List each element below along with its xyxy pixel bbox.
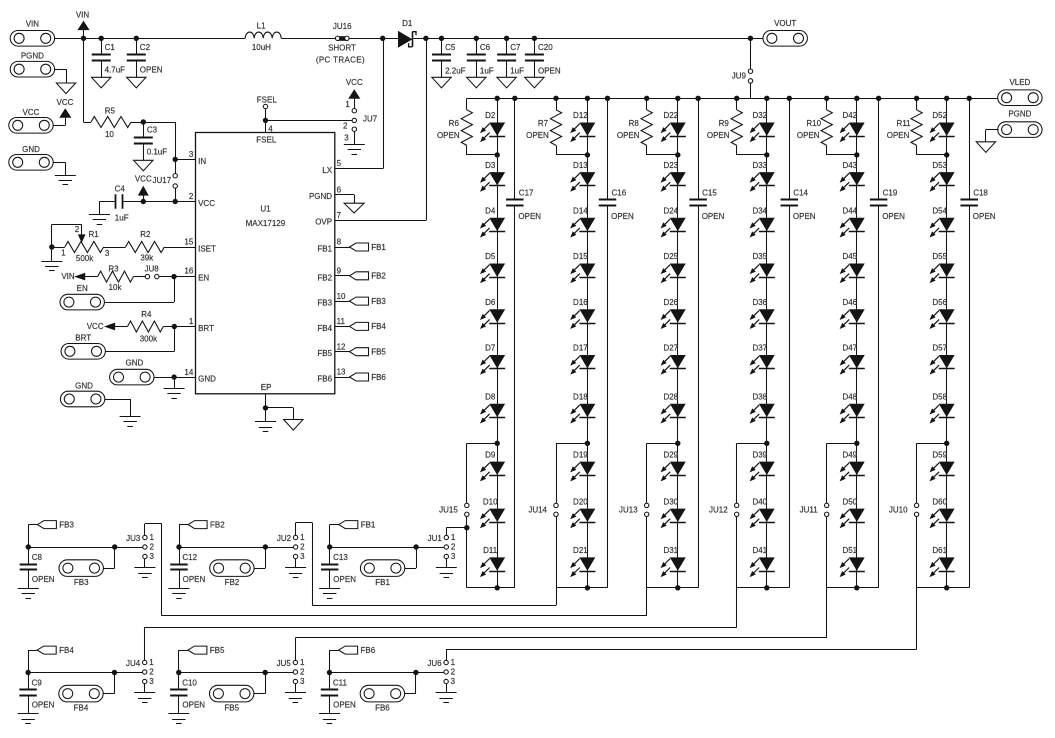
- junction: [263, 405, 268, 410]
- LED D4: [481, 207, 505, 237]
- op-amp U1: [196, 133, 335, 394]
- svg-text:D7: D7: [485, 344, 496, 353]
- LED D13: [571, 161, 595, 191]
- svg-text:OPEN: OPEN: [611, 212, 634, 221]
- junction: [675, 152, 680, 157]
- junction: [504, 36, 509, 41]
- svg-text:FB1: FB1: [361, 520, 376, 529]
- net label VIN: [61, 272, 84, 281]
- svg-text:D33: D33: [752, 161, 767, 170]
- ground: [497, 77, 516, 88]
- jumper JU5: [277, 658, 305, 686]
- svg-text:VCC: VCC: [57, 98, 74, 107]
- svg-text:D41: D41: [752, 546, 767, 555]
- ground: [134, 693, 155, 703]
- capacitor C20: [525, 38, 561, 77]
- connector GND: [9, 145, 53, 170]
- wire BRT pad: [105, 327, 174, 352]
- ground: [134, 160, 153, 171]
- svg-text:JU15: JU15: [439, 505, 458, 514]
- LED D53: [931, 161, 955, 191]
- svg-text:GND: GND: [75, 381, 93, 390]
- svg-text:D52: D52: [932, 111, 947, 120]
- svg-text:D57: D57: [932, 344, 947, 353]
- svg-text:2.2uF: 2.2uF: [445, 66, 466, 75]
- LED D20: [571, 497, 595, 527]
- svg-text:C10: C10: [182, 679, 197, 688]
- svg-text:PGND: PGND: [21, 52, 44, 61]
- LED D44: [841, 207, 865, 237]
- svg-text:D17: D17: [573, 344, 588, 353]
- pin 13 FB6: [317, 368, 346, 384]
- svg-text:VOUT: VOUT: [774, 19, 796, 28]
- svg-text:1uF: 1uF: [115, 213, 129, 222]
- LED D6: [481, 298, 505, 328]
- svg-text:OPEN: OPEN: [518, 212, 541, 221]
- resistor R11: [887, 98, 947, 155]
- svg-text:D20: D20: [573, 497, 588, 506]
- connector PGND right: [998, 109, 1042, 137]
- svg-text:5: 5: [337, 159, 342, 168]
- svg-text:D21: D21: [573, 546, 588, 555]
- wire JU2 route: [296, 523, 557, 606]
- svg-text:R10: R10: [806, 119, 821, 128]
- jumper JU12: [709, 503, 739, 516]
- svg-text:R1: R1: [88, 230, 99, 239]
- svg-text:3: 3: [189, 150, 194, 159]
- wire node: [179, 547, 293, 549]
- svg-text:GND: GND: [126, 359, 144, 368]
- resistor R4: [115, 310, 196, 343]
- svg-text:FB2: FB2: [371, 272, 386, 281]
- diode D1: [399, 19, 417, 47]
- net label FB1: [330, 520, 376, 547]
- LED D26: [662, 298, 686, 328]
- pin 9 FB2: [317, 267, 341, 283]
- svg-text:C6: C6: [480, 43, 491, 52]
- ground: [319, 589, 340, 599]
- junction: [605, 96, 610, 101]
- capacitor C9: [19, 673, 54, 714]
- LED D17: [571, 344, 595, 374]
- svg-text:FB4: FB4: [317, 324, 332, 333]
- wire PGND: [986, 130, 999, 142]
- jumper JU11: [800, 503, 829, 516]
- connector VOUT: [763, 19, 807, 46]
- junction: [553, 96, 558, 101]
- wire GND pad: [53, 162, 65, 175]
- svg-text:3: 3: [451, 552, 456, 561]
- svg-text:D10: D10: [483, 497, 498, 506]
- svg-text:2: 2: [75, 225, 80, 234]
- wire VCC pin: [122, 201, 195, 203]
- junction: [675, 585, 680, 590]
- svg-text:2: 2: [189, 192, 194, 201]
- junction: [81, 36, 86, 41]
- svg-text:D44: D44: [842, 207, 857, 216]
- connector GND3: [60, 381, 104, 407]
- svg-text:10uH: 10uH: [252, 43, 271, 52]
- svg-text:1: 1: [189, 317, 194, 326]
- LED D39: [751, 450, 775, 480]
- svg-text:OPEN: OPEN: [526, 131, 549, 140]
- svg-text:D59: D59: [932, 450, 947, 459]
- wire oval: [405, 673, 416, 694]
- pin 10 FB3: [317, 292, 346, 308]
- svg-text:JU4: JU4: [126, 659, 141, 668]
- pin 15 ISET: [184, 238, 216, 254]
- LED D51: [841, 546, 865, 576]
- wire oval: [254, 547, 265, 569]
- wire LED string: [497, 98, 499, 588]
- svg-text:3: 3: [300, 552, 305, 561]
- svg-text:FB2: FB2: [317, 273, 332, 282]
- svg-text:C11: C11: [333, 679, 348, 688]
- svg-text:7: 7: [337, 211, 342, 220]
- junction: [787, 96, 792, 101]
- svg-text:BRT: BRT: [75, 333, 91, 342]
- ground: [18, 714, 39, 724]
- wire bypass: [917, 443, 947, 588]
- svg-text:FB6: FB6: [361, 646, 376, 655]
- junction: [327, 544, 332, 549]
- net label FB6: [335, 373, 387, 382]
- svg-text:C9: C9: [32, 679, 43, 688]
- wire jumper gnd: [295, 684, 297, 693]
- junction: [413, 670, 418, 675]
- svg-text:D40: D40: [752, 497, 767, 506]
- svg-text:FB3: FB3: [317, 299, 332, 308]
- net label VCC: [87, 322, 115, 331]
- wire VIN to R5: [84, 38, 92, 122]
- wire JU3 route: [145, 524, 647, 616]
- svg-text:FB6: FB6: [317, 375, 332, 384]
- svg-text:1uF: 1uF: [480, 66, 494, 75]
- junction: [173, 199, 178, 204]
- svg-text:500k: 500k: [76, 254, 94, 263]
- junction: [141, 119, 146, 124]
- jumper JU6: [427, 658, 455, 686]
- svg-text:PGND: PGND: [1008, 109, 1031, 118]
- svg-text:SHORT: SHORT: [328, 44, 356, 53]
- LED D7: [481, 344, 505, 374]
- capacitor C3: [134, 122, 167, 160]
- junction: [914, 96, 919, 101]
- ground: [18, 589, 39, 599]
- ground: [976, 142, 995, 153]
- net label FB4: [335, 322, 387, 331]
- resistor R5: [91, 106, 143, 138]
- connector FB1: [360, 560, 404, 587]
- svg-text:2: 2: [149, 543, 154, 552]
- junction: [495, 441, 500, 446]
- svg-text:OPEN: OPEN: [437, 131, 460, 140]
- LED D45: [841, 252, 865, 282]
- svg-text:R8: R8: [629, 119, 640, 128]
- svg-text:D22: D22: [663, 111, 678, 120]
- potentiometer R1: [61, 225, 110, 263]
- svg-text:C2: C2: [140, 43, 151, 52]
- LED D47: [841, 344, 865, 374]
- svg-text:10: 10: [337, 292, 346, 301]
- LED D30: [662, 497, 686, 527]
- LED D36: [751, 298, 775, 328]
- svg-text:C8: C8: [32, 553, 43, 562]
- svg-text:JU3: JU3: [126, 534, 141, 543]
- svg-text:FB2: FB2: [210, 520, 225, 529]
- svg-text:D3: D3: [485, 161, 496, 170]
- junction: [263, 118, 268, 123]
- LED D38: [751, 393, 775, 423]
- wire jumper gnd: [144, 559, 146, 568]
- LED D40: [751, 497, 775, 527]
- svg-text:D4: D4: [485, 207, 496, 216]
- pin 16 EN: [184, 267, 209, 283]
- junction: [141, 199, 146, 204]
- connector PGND left: [10, 52, 54, 78]
- svg-text:R5: R5: [105, 106, 116, 115]
- svg-text:D30: D30: [663, 497, 678, 506]
- junction: [585, 152, 590, 157]
- ground: [169, 589, 190, 599]
- svg-text:C20: C20: [538, 43, 553, 52]
- svg-text:D46: D46: [842, 298, 857, 307]
- ground: [285, 568, 306, 578]
- junction: [675, 96, 680, 101]
- junction: [495, 585, 500, 590]
- resistor R3: [85, 265, 146, 293]
- ground: [41, 262, 62, 271]
- svg-text:FB1: FB1: [317, 245, 332, 254]
- svg-text:C7: C7: [510, 43, 521, 52]
- svg-text:OPEN: OPEN: [538, 66, 561, 75]
- junction: [854, 96, 859, 101]
- net label FB2: [179, 520, 225, 547]
- svg-text:D18: D18: [573, 393, 588, 402]
- svg-text:1: 1: [61, 248, 66, 257]
- jumper JU4: [126, 658, 154, 686]
- svg-text:FB3: FB3: [59, 520, 74, 529]
- power VCC: [57, 98, 74, 117]
- ground: [436, 693, 457, 703]
- capacitor C1: [92, 38, 125, 77]
- svg-text:9: 9: [337, 267, 342, 276]
- svg-text:JU12: JU12: [709, 505, 728, 514]
- svg-text:OPEN: OPEN: [887, 131, 910, 140]
- svg-text:FB1: FB1: [371, 243, 386, 252]
- svg-text:ISET: ISET: [198, 245, 216, 254]
- svg-text:C4: C4: [115, 185, 126, 194]
- junction: [112, 670, 117, 675]
- svg-text:D36: D36: [752, 298, 767, 307]
- LED D61: [931, 546, 955, 576]
- ground: [255, 422, 276, 432]
- svg-text:14: 14: [184, 368, 193, 377]
- wire R5 to IN: [143, 122, 175, 159]
- jumper JU7: [343, 97, 378, 143]
- svg-text:2: 2: [300, 543, 305, 552]
- wire oval: [103, 673, 114, 694]
- LED D35: [751, 252, 775, 282]
- power VCC: [346, 78, 363, 98]
- junction: [695, 96, 700, 101]
- svg-text:C18: C18: [973, 188, 988, 197]
- wire jumper gnd: [144, 684, 146, 693]
- svg-text:EP: EP: [261, 383, 272, 392]
- svg-text:D55: D55: [932, 252, 947, 261]
- jumper JU2: [277, 533, 305, 561]
- svg-text:D9: D9: [485, 450, 496, 459]
- power VIN: [76, 11, 90, 39]
- capacitor C13: [321, 547, 356, 588]
- svg-text:D12: D12: [573, 111, 588, 120]
- capacitor C11: [321, 673, 356, 714]
- LED D59: [931, 450, 955, 480]
- svg-text:JU5: JU5: [277, 659, 292, 668]
- connector FB2: [210, 560, 254, 587]
- junction: [585, 585, 590, 590]
- junction: [944, 152, 949, 157]
- LED D23: [662, 161, 686, 191]
- junction: [532, 36, 537, 41]
- svg-text:D51: D51: [842, 546, 857, 555]
- LED D5: [481, 252, 505, 282]
- connector FB6: [360, 685, 404, 712]
- svg-text:C14: C14: [793, 188, 808, 197]
- svg-text:VCC: VCC: [87, 322, 104, 331]
- svg-text:C16: C16: [612, 188, 627, 197]
- LED D43: [841, 161, 865, 191]
- junction: [854, 152, 859, 157]
- net label FB5: [179, 646, 226, 673]
- junction: [263, 670, 268, 675]
- svg-text:1: 1: [451, 533, 456, 542]
- svg-text:FSEL: FSEL: [256, 135, 277, 144]
- pin 1 BRT: [189, 317, 214, 333]
- svg-text:OPEN: OPEN: [333, 701, 356, 710]
- connector VIN: [10, 19, 54, 46]
- svg-text:JU10: JU10: [889, 505, 908, 514]
- LED D56: [931, 298, 955, 328]
- junction: [495, 96, 500, 101]
- svg-text:D48: D48: [842, 393, 857, 402]
- LED D57: [931, 344, 955, 374]
- pin 2 VCC: [189, 192, 215, 208]
- svg-text:GND: GND: [198, 375, 216, 384]
- svg-text:2: 2: [149, 668, 154, 677]
- wire PGND pin: [335, 195, 355, 204]
- svg-text:D6: D6: [485, 298, 496, 307]
- svg-text:2: 2: [343, 121, 348, 130]
- svg-text:D50: D50: [842, 497, 857, 506]
- junction: [944, 585, 949, 590]
- junction: [967, 96, 972, 101]
- net label FB6: [330, 646, 376, 673]
- svg-text:1: 1: [300, 533, 305, 542]
- wire PGND pad: [55, 69, 67, 83]
- svg-text:2: 2: [300, 668, 305, 677]
- LED D32: [751, 111, 775, 141]
- wire LED string: [587, 98, 589, 588]
- jumper JU13: [619, 503, 649, 516]
- junction: [474, 36, 479, 41]
- svg-text:VIN: VIN: [76, 11, 90, 20]
- wire jumper gnd: [446, 559, 448, 568]
- svg-text:VCC: VCC: [346, 78, 363, 87]
- junction: [423, 36, 428, 41]
- svg-text:L1: L1: [257, 21, 266, 30]
- svg-text:6: 6: [337, 185, 342, 194]
- svg-text:D16: D16: [573, 298, 588, 307]
- svg-text:D60: D60: [932, 497, 947, 506]
- wire VIN rail: [55, 38, 763, 40]
- junction: [99, 36, 104, 41]
- svg-text:D47: D47: [842, 344, 857, 353]
- LED D18: [571, 393, 595, 423]
- svg-text:D5: D5: [485, 252, 496, 261]
- ground: [164, 389, 185, 399]
- pin 11 FB4: [317, 317, 345, 333]
- svg-text:D42: D42: [842, 111, 857, 120]
- svg-text:D56: D56: [932, 298, 947, 307]
- svg-text:4: 4: [268, 124, 273, 133]
- wire bypass: [737, 443, 767, 588]
- svg-text:R4: R4: [141, 310, 152, 319]
- capacitor C4: [99, 185, 128, 223]
- ground: [92, 77, 111, 88]
- wire GND gnd: [174, 377, 176, 389]
- junction: [824, 96, 829, 101]
- LED D60: [931, 497, 955, 527]
- connector FB5: [210, 685, 254, 712]
- junction: [380, 36, 385, 41]
- svg-text:R7: R7: [538, 119, 549, 128]
- svg-text:IN: IN: [198, 157, 206, 166]
- junction: [25, 670, 30, 675]
- junction: [26, 544, 31, 549]
- svg-text:FB4: FB4: [59, 646, 74, 655]
- wire node: [28, 672, 142, 674]
- junction: [854, 585, 859, 590]
- svg-text:FB3: FB3: [74, 578, 89, 587]
- LED D3: [481, 161, 505, 191]
- svg-text:JU16: JU16: [333, 22, 352, 31]
- svg-text:8: 8: [337, 238, 342, 247]
- wire OVP: [335, 38, 427, 220]
- junction: [764, 152, 769, 157]
- svg-text:D39: D39: [752, 450, 767, 459]
- pin 6 PGND: [309, 185, 342, 201]
- svg-text:OPEN: OPEN: [793, 212, 816, 221]
- inductor L1: [245, 21, 281, 52]
- svg-text:JU2: JU2: [277, 534, 292, 543]
- svg-text:D8: D8: [485, 393, 496, 402]
- LED D37: [751, 344, 775, 374]
- wire JU1 route: [446, 528, 467, 536]
- LED D2: [481, 111, 505, 141]
- ground: [55, 176, 76, 185]
- svg-text:D26: D26: [663, 298, 678, 307]
- junction: [748, 36, 753, 41]
- wire R1-R2: [104, 247, 126, 249]
- svg-text:C3: C3: [147, 126, 158, 135]
- capacitor C12: [170, 547, 205, 588]
- jumper JU17: [153, 159, 178, 201]
- svg-text:C17: C17: [519, 188, 534, 197]
- junction: [876, 96, 881, 101]
- svg-text:VCC: VCC: [198, 199, 215, 208]
- ground: [319, 714, 340, 724]
